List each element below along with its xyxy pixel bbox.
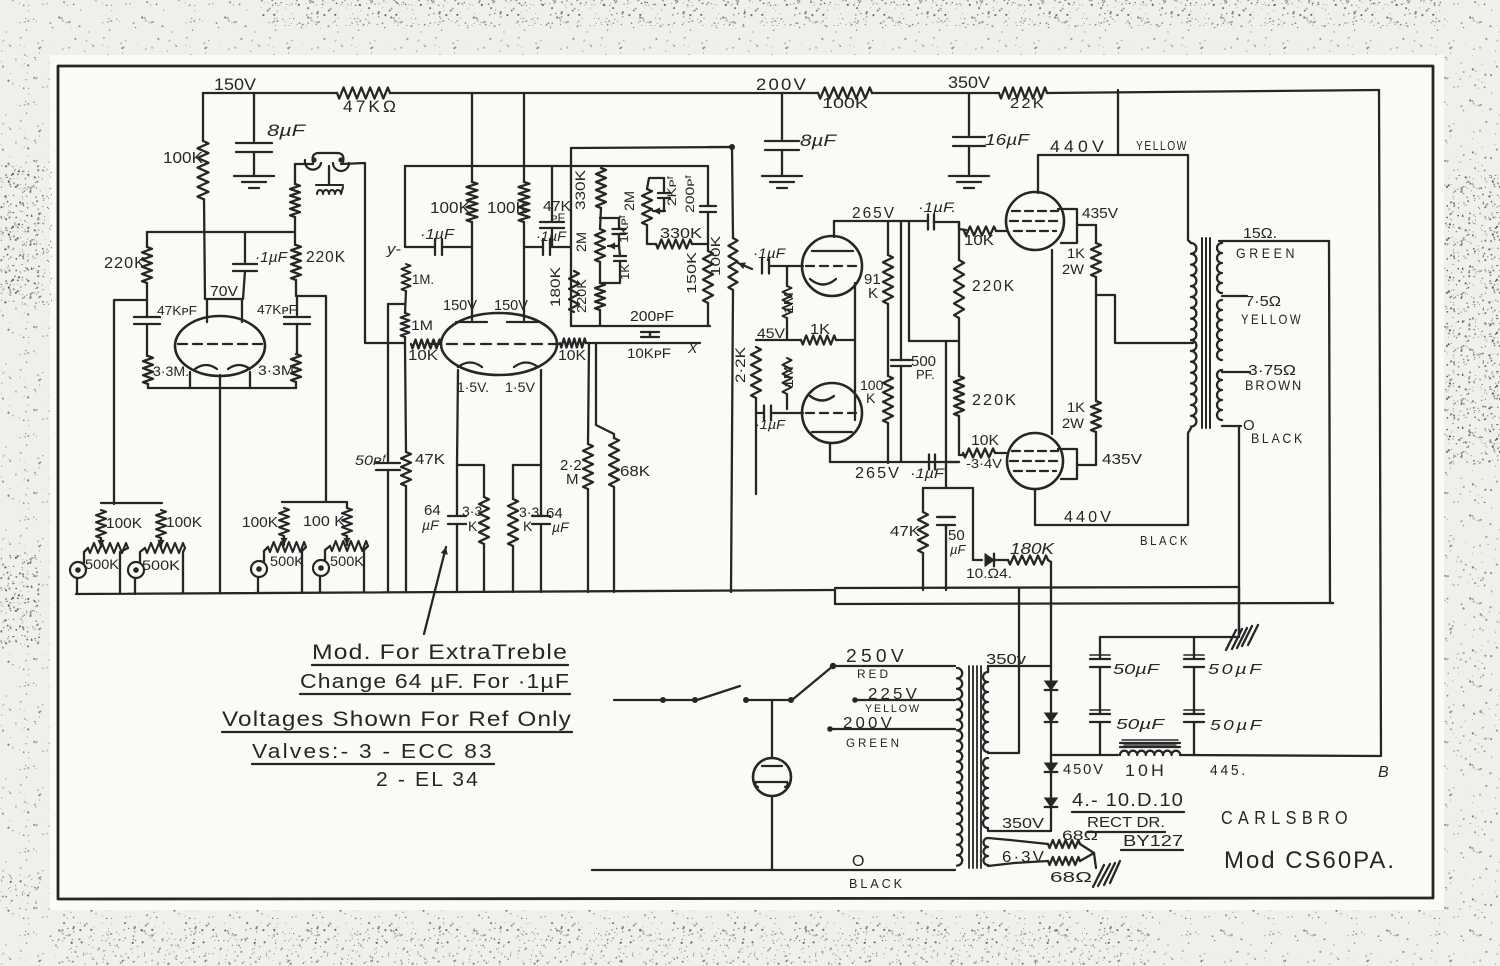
svg-text:500K: 500K [330, 553, 365, 569]
svg-text:435V: 435V [1082, 205, 1118, 222]
wire: grid node to 47K [405, 345, 406, 452]
choke 10H core [1120, 743, 1180, 747]
potentiometer 500K (ch4) [330, 541, 368, 551]
wire: rail to 16uF [968, 93, 970, 135]
V1 cathode arcs [195, 365, 250, 369]
wire: screen rail link [1096, 277, 1150, 343]
wire+arrow: ch1 into pot [100, 538, 102, 547]
tone box left side [570, 148, 572, 166]
svg-text:22K: 22K [1010, 95, 1046, 112]
wire: 220K V4 span [958, 222, 960, 341]
wire: rectifier column lower [1050, 755, 1052, 831]
resistor 3.3M (left) [143, 356, 153, 384]
arrow: 2M lower wiper [608, 245, 619, 247]
svg-text:Mod. For ExtraTreble: Mod. For ExtraTreble [312, 641, 568, 664]
bus: upper right earth [835, 587, 1239, 588]
wire: live link [663, 699, 695, 701]
svg-text:2M: 2M [621, 191, 637, 211]
wire: 330K down [600, 208, 601, 229]
wire: 220K V5 span [958, 341, 960, 455]
valve V2 ECC83 envelope [441, 313, 557, 375]
resistor 220K (V1b) [291, 245, 301, 280]
capacitor .1uF (lower coupling) [929, 455, 935, 470]
diode D3 (HT) [1045, 763, 1058, 772]
earth hatch (heater) [1093, 861, 1120, 887]
svg-text:2Kᴘᶠ: 2Kᴘᶠ [665, 176, 679, 206]
wire: 68R join [1080, 844, 1094, 861]
resistor 10K (V5 grid) [963, 449, 995, 458]
wire: 45V line left [756, 339, 801, 341]
capacitor .1uF (V3b grid) [764, 406, 771, 421]
resistor 1M (V3a grid) [783, 286, 792, 318]
wire: 500PF column [900, 221, 902, 462]
wire: 50uF col1 [1099, 637, 1101, 755]
svg-text:-3·4V: -3·4V [966, 456, 1002, 471]
svg-text:2·2K: 2·2K [732, 346, 748, 383]
wire: heater left hook to 220K chain [295, 163, 313, 165]
wire: .14F to 10K top [934, 222, 966, 230]
resistor 1K 2W (V4 screen) [1091, 243, 1101, 277]
valve V1 ECC83 envelope [175, 316, 265, 376]
svg-text:YELLOW: YELLOW [1241, 311, 1303, 327]
wire: .1uF b leads [524, 246, 571, 248]
wire: hatch lead [1238, 587, 1240, 637]
wire: 64uF a to bus [456, 465, 458, 592]
wire: 50uF top line [1100, 636, 1239, 638]
wire: 100K to V1 anode node [204, 199, 205, 299]
wire: V5 anode down [1035, 489, 1188, 525]
resistor 3.3M (right) [291, 354, 301, 382]
svg-text:10K: 10K [558, 347, 586, 364]
jack socket ch4 [313, 560, 329, 576]
svg-text:µF: µF [552, 519, 570, 535]
switch pole 2 to 250V tap [792, 666, 833, 700]
wire: pot2 left to jack [140, 548, 145, 563]
resistor 220K (box) [595, 283, 605, 310]
resistor 2M (box upper) [642, 189, 652, 225]
V2 anode bars [456, 321, 538, 323]
border frame [58, 66, 1433, 899]
svg-text:Change 64 µF. For ·1µF: Change 64 µF. For ·1µF [300, 671, 570, 693]
wire: 330K tap stub [600, 217, 619, 219]
svg-text:1K: 1K [810, 321, 830, 338]
wire: box right side upper [707, 166, 709, 206]
resistor 91K [883, 255, 893, 304]
wire: stub to channel-1 drop [114, 300, 147, 504]
resistor 2.2M [583, 444, 593, 489]
capacitor 64uF (a) [448, 516, 466, 524]
PT secondary HT top [983, 672, 988, 752]
wire: V4 cathode link down [1051, 250, 1053, 434]
wire: V2 cathode a down [457, 370, 458, 465]
svg-text:3·3: 3·3 [462, 503, 482, 519]
wire: 68K to bus [613, 487, 615, 592]
capacitor 1KPF [613, 229, 626, 234]
diode 10.D.4 (bias rectifier) [985, 554, 994, 567]
svg-text:47K: 47K [415, 451, 445, 468]
svg-text:BLACK: BLACK [1140, 533, 1190, 548]
svg-text:50µF: 50µF [1113, 661, 1160, 678]
wire: mixer group1 top line [101, 502, 162, 504]
capacitor 50uF (2) [1184, 659, 1204, 667]
wire: .1uF V3b to circle [771, 412, 803, 414]
wire: V3a grid node [786, 266, 788, 286]
svg-text:220K: 220K [972, 392, 1018, 409]
wire: V5 screen bracket [1058, 449, 1077, 479]
potentiometer 500K (ch1) [88, 543, 128, 553]
wire: PT centre tap [988, 588, 1019, 753]
wire: pot to bus [731, 290, 733, 592]
svg-text:2W: 2W [1062, 261, 1085, 277]
svg-text:50µF: 50µF [1208, 661, 1264, 678]
wire: 100K a to V2 anode [471, 222, 473, 320]
svg-text:1K: 1K [1067, 399, 1086, 415]
wire: OT primary top lead [1188, 155, 1191, 243]
svg-text:Voltages Shown For Ref Only: Voltages Shown For Ref Only [222, 708, 572, 731]
wire: cathode a branch [457, 465, 484, 497]
wire: rectifier column [1050, 666, 1052, 755]
wire: 100K V3 to 265V bottom [887, 423, 889, 463]
svg-text:·1µF: ·1µF [255, 249, 288, 266]
svg-text:150K: 150K [684, 252, 699, 294]
svg-text:1Kᴘᶠ: 1Kᴘᶠ [617, 215, 631, 243]
svg-text:440V: 440V [1050, 137, 1108, 156]
wire: pot4 left to jack [325, 546, 330, 561]
wire: jack2 to bus [134, 578, 136, 594]
wire: .1uF to 70V bar [243, 271, 245, 299]
wire: V4 anode [1037, 155, 1039, 193]
valve V3b triode (lower) [802, 383, 862, 443]
wire: 1M to grid node [404, 337, 406, 345]
jack socket ch2 [128, 562, 144, 578]
wire: pot4 right to bus [364, 546, 368, 592]
wire: bias line down [945, 341, 947, 467]
resistor 1K (V3) [801, 336, 836, 345]
wire: 47KPF to 3.3M (left) [146, 324, 148, 356]
wire: bus B corner up [1330, 602, 1333, 604]
wire: 1M junction [405, 291, 406, 313]
svg-text:10K: 10K [964, 232, 994, 249]
capacitor .1uF (V2a) [435, 239, 442, 255]
wire: pot1 left to jack [84, 548, 88, 563]
wire: 265V bottom to bias cap [946, 461, 959, 463]
svg-text:·1µF: ·1µF [755, 417, 786, 432]
svg-text:BLACK: BLACK [1251, 430, 1305, 446]
svg-text:RED: RED [857, 667, 891, 681]
svg-text:O: O [852, 853, 864, 870]
wire: 8uF to ground [253, 152, 255, 176]
resistor 22K (rail) [999, 88, 1047, 99]
resistor 100K (V3) [883, 376, 893, 423]
V3a anode bar [812, 250, 853, 252]
svg-text:200ᴘᶠ: 200ᴘᶠ [683, 175, 697, 213]
wire+arrow: ch2 into pot [160, 538, 162, 547]
svg-text:YELLOW: YELLOW [865, 703, 921, 715]
svg-text:K: K [866, 390, 876, 406]
wire: rail to 8uF [253, 93, 255, 141]
ground (8uF no2) [762, 176, 802, 188]
wire: right chain to box bottom [295, 382, 297, 388]
wire: 200PF to 10KPF [649, 332, 651, 337]
wire: y166 to Y- corner [404, 166, 406, 247]
wire: bias cap top [945, 467, 947, 488]
capacitor 47KPF (tone) [540, 222, 564, 228]
capacitor 200PF (out) [641, 326, 659, 332]
svg-text:8µF: 8µF [267, 121, 307, 140]
potentiometer 500K (ch3) [268, 542, 306, 552]
bus: jog [834, 590, 836, 604]
svg-text:15Ω.: 15Ω. [1243, 225, 1277, 242]
wire: 2M pot down [599, 262, 601, 283]
wire: 2.2M to bus [587, 489, 589, 592]
wire: V1 cathode to bus [219, 375, 221, 592]
wire: out line to X [660, 342, 700, 344]
wire+arrow: ch3 into pot [283, 536, 285, 545]
wire: 1KPF column [618, 218, 620, 246]
svg-text:10K: 10K [408, 347, 438, 364]
svg-text:50µF: 50µF [1210, 717, 1264, 734]
PT secondary HT bottom [983, 758, 988, 828]
wire: mixer group2 top line [282, 501, 346, 503]
wire: PT 350V top lead [988, 666, 1051, 672]
svg-text:10.Ω4.: 10.Ω4. [966, 565, 1012, 581]
pilot lamp [753, 758, 791, 796]
wire: rail to 100K top-left [202, 93, 204, 141]
V4 grid dashes [1012, 210, 1058, 212]
svg-text:16µF: 16µF [985, 132, 1030, 149]
resistor 3.3K (a) [479, 497, 489, 544]
capacitor 16uF (output stage decoupling) [953, 137, 985, 146]
capacitor 50PF [376, 463, 400, 470]
wire: OT sec tap 3.75 [1222, 371, 1250, 373]
wire: V4 screen bracket [1058, 209, 1077, 243]
svg-text:150V: 150V [443, 297, 477, 314]
svg-text:1·5V: 1·5V [505, 379, 536, 395]
svg-text:RECT DR.: RECT DR. [1087, 814, 1165, 831]
resistor 180K (bias) [1008, 556, 1048, 565]
wire: mains neutral [592, 869, 955, 871]
svg-text:200V: 200V [756, 75, 808, 94]
svg-text:Valves:- 3 - ECC 83: Valves:- 3 - ECC 83 [252, 741, 494, 763]
wire: B+ vertical right side down to B corner [1379, 90, 1381, 756]
svg-text:CARLSBRO: CARLSBRO [1221, 808, 1353, 828]
svg-text:250V: 250V [846, 646, 908, 666]
wire: lamp top [771, 700, 773, 758]
svg-text:2 - EL 34: 2 - EL 34 [376, 769, 480, 791]
wire: 265V rail [834, 220, 899, 222]
PT core [969, 666, 981, 868]
node line y232 (V1 anodes) [147, 231, 295, 233]
svg-text:y-: y- [386, 241, 401, 258]
arrow: pot wiper [738, 263, 752, 269]
resistor 3.3K (b) [508, 499, 518, 546]
resistor 100K (ch4 mix) [342, 508, 352, 536]
svg-text:1K: 1K [1067, 245, 1086, 261]
resistor 47Kohm (rail) [337, 88, 390, 99]
wire: 250V tap to PT [833, 665, 955, 667]
tone box bottom right part [659, 325, 710, 327]
V2 cathode arcs [458, 363, 538, 368]
wire: left chain to box bottom [147, 384, 149, 388]
wire: speaker line down [1329, 241, 1330, 603]
svg-text:265V: 265V [852, 205, 896, 222]
wire: 8uF no2 to ground [781, 150, 783, 176]
potentiometer 100K (volume) [729, 238, 738, 290]
V3a grid dashes [806, 265, 860, 267]
tone box bottom [571, 325, 641, 327]
svg-text:70V: 70V [210, 283, 238, 300]
V3b cathode arc [810, 396, 834, 401]
wire: 16uF to ground [968, 146, 970, 175]
jack socket ch3 [251, 561, 267, 577]
wire: 50uF col2 [1193, 637, 1195, 755]
wire: box left top [146, 232, 148, 247]
resistor 47K (bias) [918, 512, 928, 553]
svg-text:220K: 220K [574, 279, 589, 313]
svg-text:100K: 100K [242, 514, 278, 531]
capacitor 500PF [891, 360, 911, 366]
wire: V3b anode down [830, 443, 959, 462]
capacitor 50uF (3) [1090, 714, 1110, 722]
svg-text:·1µF: ·1µF [753, 245, 787, 261]
svg-text:100K: 100K [106, 515, 142, 532]
wire: box left to bottom [570, 166, 572, 326]
wire: 2M upper top [647, 178, 664, 189]
capacitor 2KPF [658, 193, 670, 198]
svg-text:10K: 10K [971, 432, 999, 449]
ground (8uF) [234, 176, 274, 188]
svg-text:180K: 180K [1010, 541, 1056, 558]
resistor 100K (V2 anode b) [519, 182, 530, 222]
svg-text:50µF: 50µF [1116, 716, 1165, 733]
wire: 445 line [1180, 755, 1380, 756]
switch pole 1 [697, 686, 740, 700]
wire: 180K to PSU [1048, 560, 1051, 666]
svg-text:1·5V.: 1·5V. [457, 379, 489, 395]
resistor 220K (V4 grid leak) [954, 260, 964, 318]
wire: NFB link [909, 340, 959, 342]
wire: 64uF b to bus [540, 465, 542, 592]
resistor 68R (b) [1048, 857, 1080, 865]
resistor 220K (V5 grid leak) [954, 376, 964, 416]
capacitor 10KPF [641, 337, 659, 343]
capacitor 50uF (1) [1090, 659, 1110, 667]
svg-text:445.: 445. [1210, 762, 1248, 779]
PT primary winding [957, 668, 962, 866]
svg-text:100K: 100K [822, 95, 868, 112]
svg-text:Mod CS60PA.: Mod CS60PA. [1224, 847, 1396, 874]
wire: 2KPF link down [663, 178, 665, 191]
wire: 200V tap [830, 728, 955, 730]
wire: bias node line [923, 487, 973, 489]
svg-text:265V: 265V [855, 465, 901, 482]
wire: rail drop to V2 anode b [523, 93, 525, 182]
wire: 47KPF hang [551, 166, 553, 247]
svg-text:BLACK: BLACK [849, 876, 905, 891]
svg-text:2W: 2W [1062, 415, 1085, 431]
svg-text:10KᴘF: 10KᴘF [627, 345, 671, 361]
resistor 1M (V3b grid) [783, 358, 792, 394]
svg-text:ᴘF: ᴘF [551, 211, 565, 225]
svg-text:220K: 220K [104, 255, 146, 272]
wire: jack3 to bus [257, 577, 259, 592]
wire: 1M a to 45V line [786, 318, 788, 340]
resistor (V1b load upper) [290, 184, 300, 217]
wire: pot vertical [732, 147, 733, 238]
wire: PT 350V bottom lead [988, 828, 1051, 831]
wire: 50PF to bus [387, 470, 389, 592]
svg-text:BY127: BY127 [1123, 833, 1183, 850]
wire: OT sec top tap 15ohm [1219, 240, 1329, 242]
resistor 100K (rail) [818, 88, 872, 99]
diode D1 (HT) [1045, 681, 1058, 690]
wire: 220K to corner [295, 280, 297, 296]
resistor 100K (ch1 mix) [96, 510, 106, 538]
wire: 68K top [596, 343, 614, 438]
wire: pot3 right to bus [302, 547, 306, 592]
svg-text:450V: 450V [1063, 761, 1105, 778]
svg-text:10H: 10H [1125, 761, 1167, 780]
wire: V1 box bottom [148, 387, 296, 389]
wire: HT rail from 150V to 47K [203, 92, 337, 94]
wire: 2.2K down to junction [755, 398, 757, 494]
svg-text:330K: 330K [572, 169, 588, 210]
wire: 50uF bias to bus [945, 525, 947, 590]
resistor 10K (V4 grid) [964, 227, 996, 236]
svg-text:1M: 1M [781, 292, 796, 314]
capacitor 50uF (4) [1184, 714, 1204, 722]
capacitor 200PF (box right) [700, 206, 716, 212]
resistor 47K (V2) [401, 452, 411, 486]
wire: 47K bias span [922, 488, 924, 590]
capacitor .1uF (V1) [233, 264, 257, 271]
svg-text:2M: 2M [573, 232, 589, 252]
svg-text:180K: 180K [547, 266, 563, 307]
V3b grid dashes [806, 412, 860, 414]
wire: 200PF to 330K h [707, 212, 709, 244]
svg-text:50ᴘᶠ: 50ᴘᶠ [355, 452, 387, 468]
svg-text:68K: 68K [620, 463, 650, 480]
svg-text:200ᴘF: 200ᴘF [630, 308, 674, 325]
potentiometer 500K (ch2) [145, 543, 185, 553]
OT secondary winding [1217, 243, 1222, 293]
bus: earth right portion [835, 603, 1333, 604]
wire: pot2 right to bus [183, 548, 185, 593]
svg-text:PF.: PF. [916, 367, 935, 382]
resistor 220K (V1a) [142, 247, 152, 283]
wire: bracket to 1K [1077, 225, 1096, 243]
resistor 100K (ch3 mix) [279, 508, 289, 536]
svg-text:8µF: 8µF [800, 131, 838, 150]
heater hook left [305, 160, 321, 170]
svg-text:100K: 100K [166, 514, 202, 531]
svg-text:100K: 100K [487, 200, 527, 217]
svg-text:YELLOW: YELLOW [1136, 138, 1188, 153]
heater/hum symbol top bar [313, 153, 344, 162]
wire: 91K column top [887, 221, 889, 255]
wire: rail drop to 440V line [1117, 90, 1119, 155]
valve V5 EL34 [1007, 433, 1063, 489]
wire: 2M upper bottom [647, 225, 656, 244]
V1 grid dashed line [178, 343, 262, 345]
OT primary winding [1191, 243, 1196, 427]
resistor 180K (box) [569, 271, 579, 312]
capacitor 64uF (b) [532, 516, 550, 524]
svg-text:3·3M: 3·3M [258, 362, 294, 378]
svg-text:·1µF: ·1µF [420, 226, 455, 243]
svg-text:330K: 330K [660, 225, 702, 242]
svg-text:220K: 220K [306, 249, 346, 266]
